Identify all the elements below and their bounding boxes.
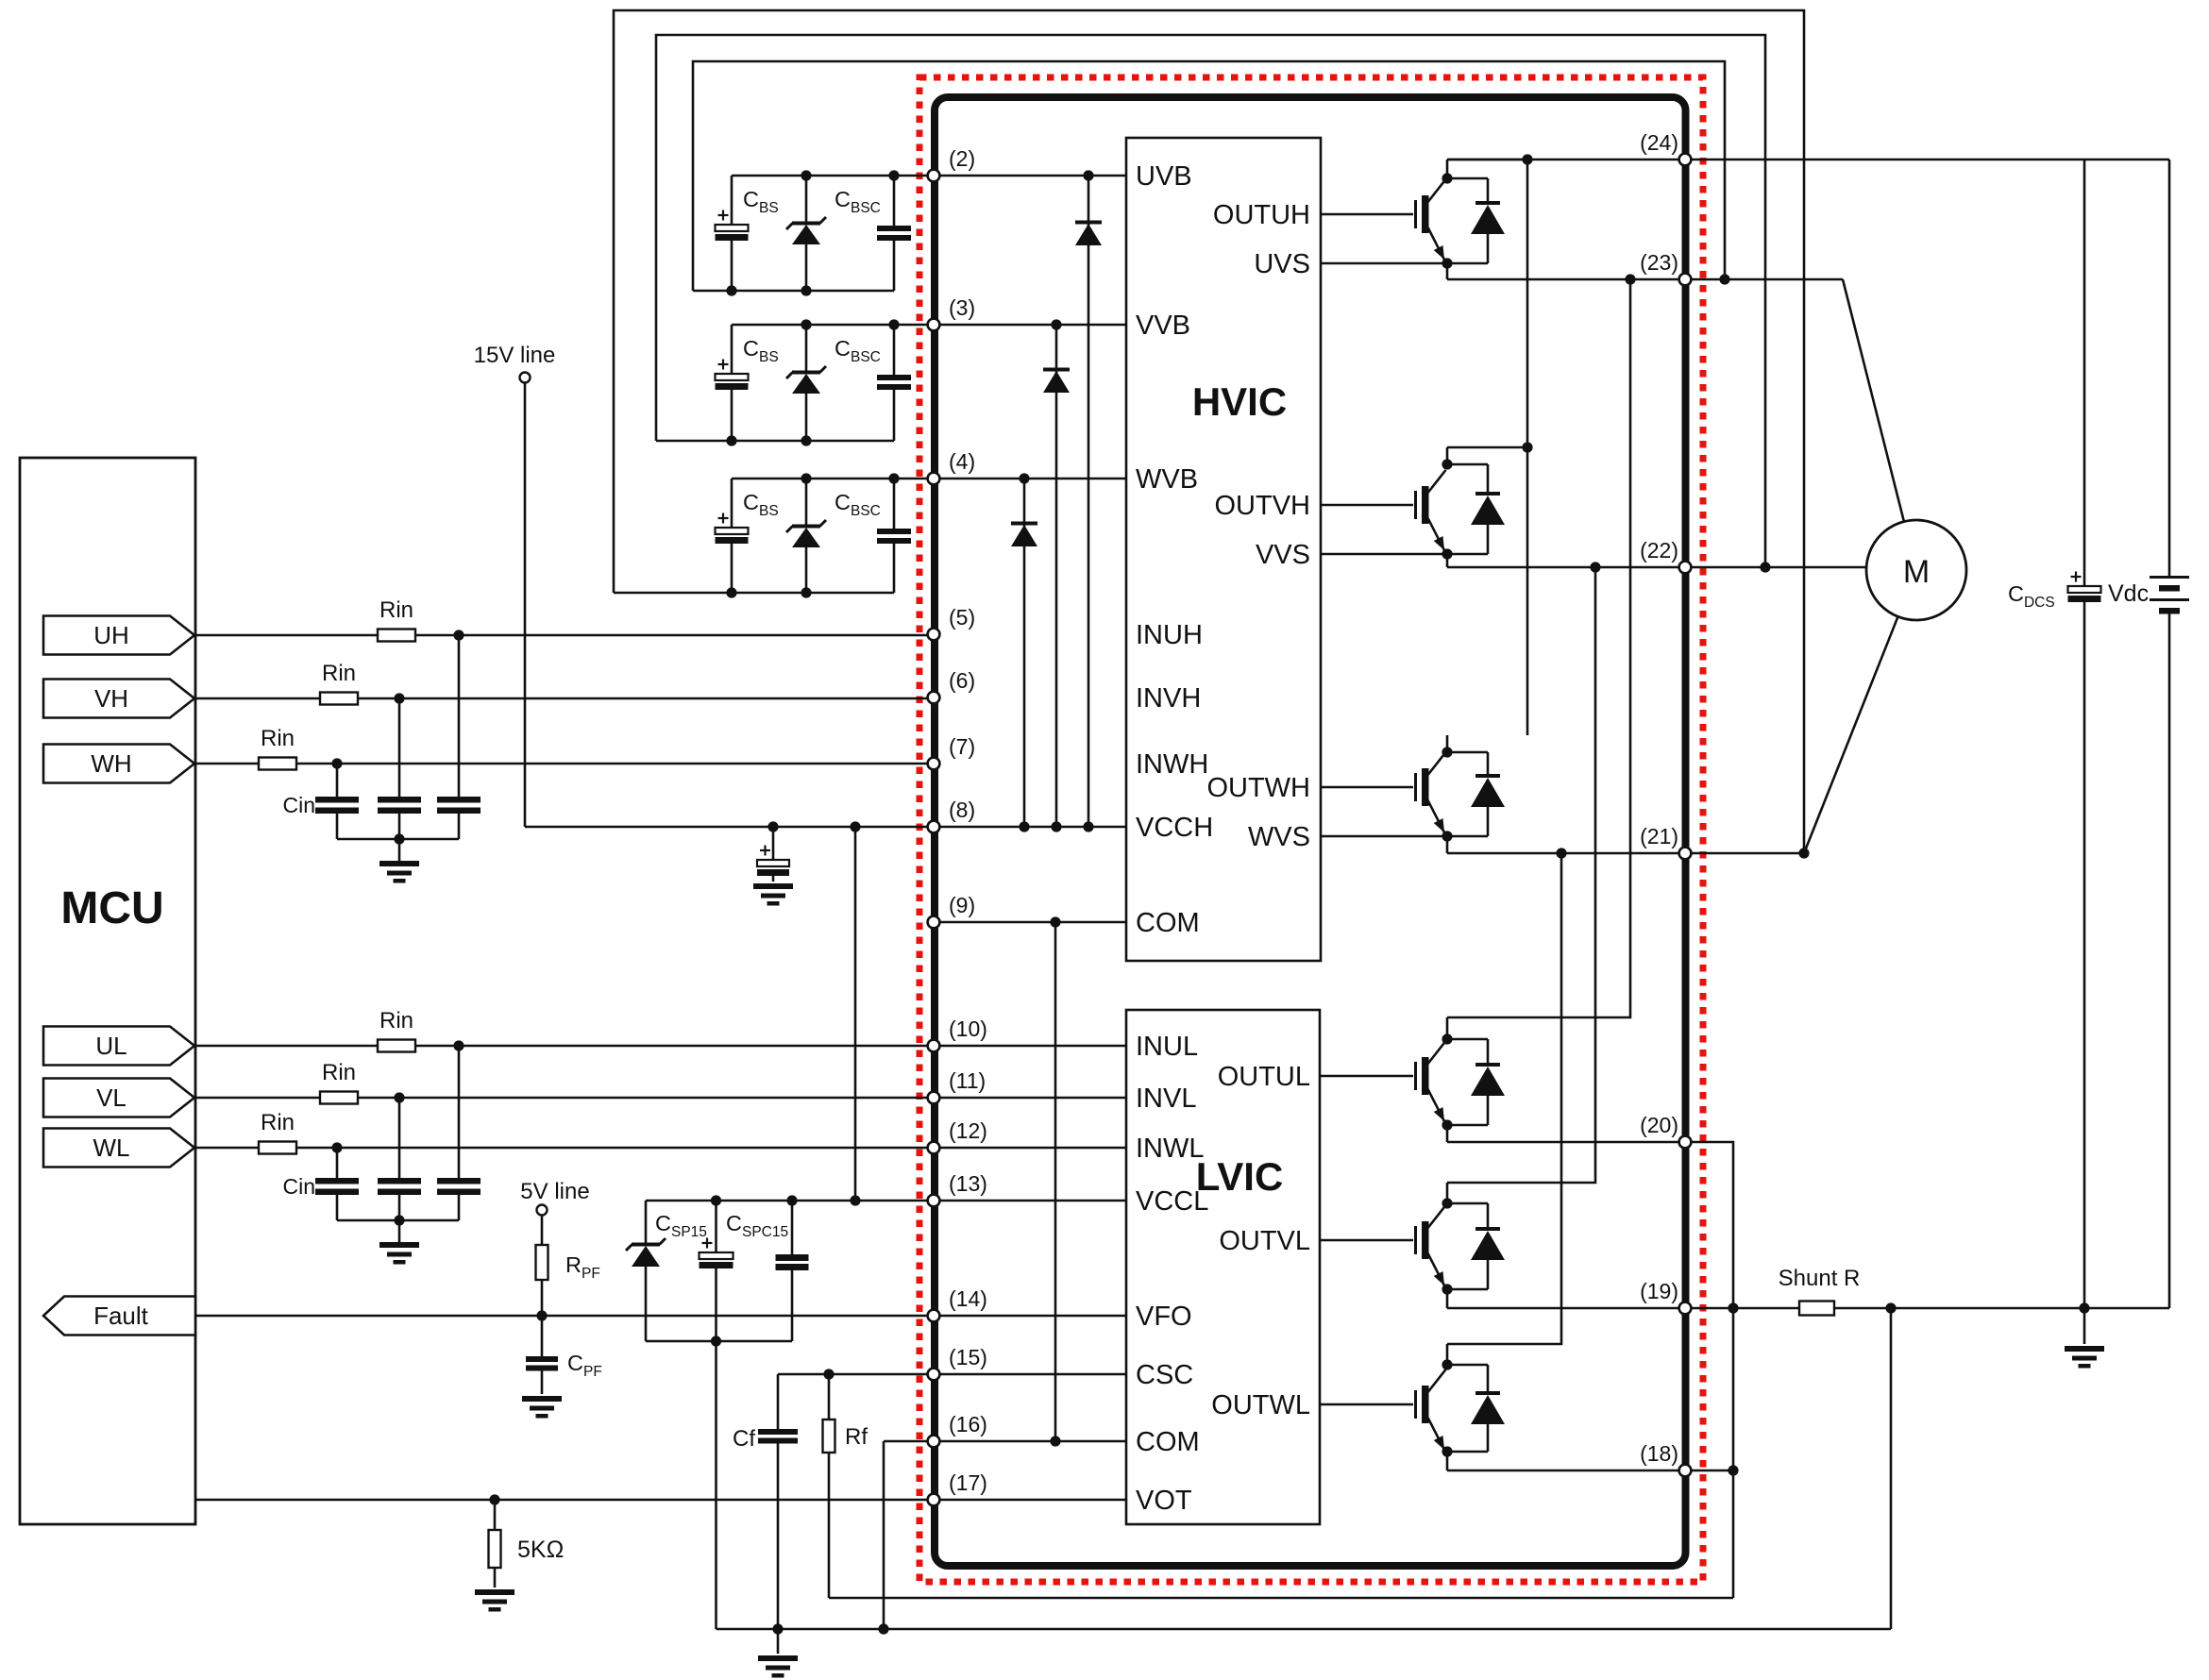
svg-text:VVB: VVB	[1136, 311, 1190, 341]
thick black module outline	[935, 97, 1686, 1566]
capacitor Cin	[315, 764, 359, 839]
svg-text:(10): (10)	[949, 1016, 987, 1041]
svg-text:(13): (13)	[949, 1171, 987, 1196]
pin (14)	[928, 1286, 987, 1321]
wire: pin 4 line WVB	[732, 473, 1126, 483]
resistor Shunt R	[1799, 1302, 1834, 1316]
svg-text:COM: COM	[1136, 908, 1200, 938]
wire: UH input line	[194, 630, 934, 640]
wire: pin 2 line UVB	[732, 170, 1126, 180]
wire: pin 17 VOT line	[195, 1494, 1126, 1504]
capacitor CBSC (U bootstrap ceramic)	[877, 170, 911, 291]
svg-text:(19): (19)	[1640, 1279, 1678, 1303]
motor M	[1866, 520, 1966, 620]
capacitor CBS (U bootstrap electrolytic)	[716, 176, 749, 291]
svg-text:UVB: UVB	[1136, 161, 1192, 192]
svg-text:Rin: Rin	[261, 726, 295, 751]
svg-text:Shunt R: Shunt R	[1779, 1266, 1861, 1291]
ground (VCCH filter)	[753, 883, 793, 889]
wire: Cin common bus	[337, 833, 459, 844]
pin (18)	[1640, 1441, 1691, 1476]
svg-text:Rin: Rin	[322, 661, 356, 686]
wire: COM to signal-ground riser	[883, 1441, 885, 1629]
input terminal arrow WH	[43, 745, 194, 783]
wire: pin 12 line INWL	[934, 1147, 1126, 1150]
MCU block	[20, 458, 195, 1524]
wire: outer route A (W-phase bootstrap return, loop3 bottom to pin 21 node)	[614, 10, 1810, 859]
wire: bootstrap loop U bottom	[693, 285, 894, 295]
wire: outer route C (U-phase bootstrap return, loop1 bottom to pin 23 node)	[693, 61, 1730, 291]
red dotted module boundary	[919, 77, 1703, 1582]
wire: pin 11 line INVL	[934, 1097, 1126, 1100]
terminal 15V line	[474, 343, 556, 383]
capacitor Cin	[437, 1046, 481, 1220]
input terminal arrow VH	[43, 680, 194, 718]
pin (9)	[928, 893, 976, 928]
wire: U-output riser to OUTUL collector	[1447, 279, 1630, 1017]
capacitor CSPC15 (15V ceramic)	[776, 1201, 809, 1341]
svg-text:VFO: VFO	[1136, 1302, 1192, 1332]
wire: 15V supply drop to VCCH	[524, 383, 527, 827]
transistor Q3 (OUTWH)	[1321, 735, 1453, 853]
svg-text:INVL: INVL	[1136, 1084, 1196, 1114]
input terminal arrow WL	[43, 1129, 194, 1168]
pin (23)	[1640, 250, 1691, 285]
resistor Rin (VL)	[320, 1092, 358, 1104]
ground (Cin bus)	[379, 839, 419, 883]
wire: pin 3 line VVB	[732, 319, 1126, 329]
svg-text:WH: WH	[91, 749, 131, 778]
svg-text:(5): (5)	[949, 605, 975, 630]
input terminal arrow VL	[43, 1079, 194, 1117]
wire: VCCH to VCCL riser	[854, 827, 857, 1201]
transistor Q6 (OUTWL)	[1321, 1344, 1453, 1470]
svg-text:UH: UH	[93, 621, 129, 649]
svg-text:WVB: WVB	[1136, 464, 1198, 495]
freewheel diode of Q4 (OUTUL)	[1447, 1039, 1505, 1125]
internal bootstrap diode (U), pin2 to VCCH	[1075, 176, 1102, 832]
freewheel diode of Q1 (OUTUH)	[1447, 178, 1505, 263]
wire: WL input line	[194, 1142, 934, 1152]
transistor Q2 (OUTVH)	[1321, 447, 1453, 567]
svg-text:(11): (11)	[949, 1068, 986, 1093]
ground (Cin bus)	[379, 1220, 419, 1265]
wire: VCCH pin 8 line	[525, 821, 1126, 832]
wire: pin 21 W-output line	[1447, 848, 1804, 858]
svg-text:Cin: Cin	[282, 793, 315, 817]
svg-text:5V line: 5V line	[520, 1179, 589, 1204]
pin (4)	[928, 449, 976, 484]
input terminal arrow UH	[43, 616, 194, 655]
wire: U phase to motor	[1843, 279, 1904, 522]
capacitor (VCCH 15V filter electrolytic)	[757, 827, 789, 882]
pin (7)	[928, 734, 976, 769]
freewheel diode of Q6 (OUTWL)	[1447, 1365, 1505, 1452]
capacitor Cin	[315, 1148, 359, 1220]
pin (17)	[928, 1470, 987, 1505]
pin (24)	[1640, 130, 1691, 165]
svg-text:(14): (14)	[949, 1286, 987, 1311]
svg-text:LVIC: LVIC	[1196, 1154, 1284, 1199]
terminal 5V line	[520, 1179, 589, 1216]
battery Vdc	[2150, 160, 2189, 1308]
resistor Rin (UH)	[378, 630, 415, 642]
svg-text:HVIC: HVIC	[1192, 379, 1287, 424]
capacitor Cin	[437, 635, 481, 839]
svg-text:(2): (2)	[949, 146, 975, 171]
capacitor CBSC (V bootstrap ceramic)	[877, 319, 911, 441]
wire: VH input line	[194, 693, 934, 703]
transistor Q5 (OUTVL)	[1321, 1183, 1453, 1308]
internal bootstrap diode (V), pin3 to VCCH	[1043, 325, 1070, 832]
svg-text:MCU: MCU	[60, 883, 163, 933]
pin (22)	[1640, 538, 1691, 573]
wire: pin 16 COM line	[884, 1440, 1126, 1443]
zener diode (V bootstrap)	[786, 319, 826, 441]
svg-text:(16): (16)	[949, 1412, 987, 1436]
pin (2)	[928, 146, 976, 181]
wire: pin 19 NV / shunt line	[1447, 1302, 2169, 1313]
wire: pin 10 line INUL	[934, 1045, 1126, 1048]
freewheel diode of Q5 (OUTVL)	[1447, 1203, 1505, 1289]
svg-text:Cf: Cf	[733, 1426, 755, 1452]
svg-text:(9): (9)	[949, 893, 975, 917]
svg-text:(24): (24)	[1640, 130, 1678, 155]
capacitor CBSC (W bootstrap ceramic)	[877, 473, 911, 593]
wire: pin 22 V-output line	[1447, 562, 1866, 572]
svg-text:Cin: Cin	[282, 1174, 315, 1199]
ground (5Kohm)	[475, 1589, 514, 1595]
svg-text:OUTVL: OUTVL	[1219, 1226, 1310, 1256]
wire: pin 9 COM line	[934, 916, 1126, 927]
svg-text:M: M	[1903, 554, 1930, 590]
pin (5)	[928, 605, 976, 640]
capacitor CSP15 (15V electrolytic)	[700, 1201, 734, 1341]
wire: V-output riser to OUTVL collector	[1447, 567, 1595, 1183]
svg-text:VCCH: VCCH	[1136, 813, 1213, 843]
svg-text:Rf: Rf	[845, 1424, 868, 1450]
wire: UVS sense line	[1321, 262, 1447, 265]
svg-text:INVH: INVH	[1136, 683, 1201, 714]
wire: bootstrap loop V bottom	[656, 435, 894, 445]
wire: signal ground bus under module	[717, 1623, 1892, 1634]
svg-text:(4): (4)	[949, 449, 975, 474]
svg-text:VVS: VVS	[1256, 540, 1310, 570]
svg-text:Rin: Rin	[379, 597, 413, 623]
svg-text:(20): (20)	[1640, 1113, 1678, 1137]
svg-text:(6): (6)	[949, 668, 975, 693]
output terminal arrow Fault	[43, 1297, 195, 1336]
ground (signal ground bus)	[758, 1629, 798, 1678]
wire: outer route B (V-phase bootstrap return, loop2 bottom to pin 22 node)	[656, 35, 1771, 573]
resistor Rf	[823, 1374, 835, 1598]
pin (13)	[928, 1171, 987, 1206]
wire: bootstrap loop W bottom	[614, 587, 894, 597]
op-amp/IC block HVIC	[1126, 138, 1321, 961]
pin (12)	[928, 1118, 987, 1153]
freewheel diode of Q3 (OUTWH)	[1447, 752, 1505, 836]
svg-text:OUTVH: OUTVH	[1215, 491, 1311, 521]
resistor Rin (WH)	[259, 758, 296, 770]
svg-text:OUTUH: OUTUH	[1213, 200, 1310, 230]
svg-text:CSC: CSC	[1136, 1360, 1193, 1390]
svg-text:VH: VH	[94, 684, 128, 713]
svg-text:OUTWH: OUTWH	[1206, 773, 1310, 803]
svg-text:(23): (23)	[1640, 250, 1678, 275]
wire: W phase to motor	[1804, 616, 1898, 853]
svg-text:VOT: VOT	[1136, 1486, 1192, 1516]
svg-text:(17): (17)	[949, 1470, 987, 1495]
wire: SP15 group bottom bus	[646, 1336, 792, 1346]
svg-text:(12): (12)	[949, 1118, 987, 1143]
capacitor Cin	[378, 698, 421, 839]
pin (16)	[928, 1412, 987, 1447]
pin (3)	[928, 295, 976, 330]
svg-text:UVS: UVS	[1254, 249, 1310, 279]
wire: Q2 collector top wire	[1447, 446, 1528, 449]
wire: Q1 collector top wire	[1447, 159, 1527, 161]
wire: WVS sense line	[1321, 835, 1447, 838]
svg-text:Fault: Fault	[93, 1302, 149, 1330]
svg-text:OUTWL: OUTWL	[1211, 1390, 1310, 1420]
svg-text:(15): (15)	[949, 1345, 987, 1369]
svg-text:COM: COM	[1136, 1427, 1200, 1457]
pin (6)	[928, 668, 976, 703]
svg-text:VCCL: VCCL	[1136, 1186, 1208, 1217]
pin (19)	[1640, 1279, 1691, 1314]
wire: W-output riser to OUTWL collector	[1447, 853, 1561, 1344]
wire: Cin common bus	[337, 1215, 459, 1225]
resistor Rin (UL)	[378, 1040, 415, 1052]
wire: VL input line	[194, 1092, 934, 1102]
svg-text:UL: UL	[95, 1032, 126, 1060]
pin (11)	[928, 1068, 986, 1103]
svg-text:(21): (21)	[1640, 824, 1678, 848]
ground (power ground at shunt)	[2065, 1308, 2104, 1369]
wire: pin 24 P-bus line	[1447, 154, 2169, 164]
zener diode (W bootstrap)	[786, 473, 826, 593]
wire: pin 15 CSC line	[778, 1369, 1126, 1379]
capacitor CDCS (DC link)	[2068, 160, 2101, 1308]
wire: SP15 bottom to signal-ground bus riser	[715, 1341, 717, 1629]
pin (21)	[1640, 824, 1691, 859]
svg-text:OUTUL: OUTUL	[1218, 1062, 1310, 1092]
resistor Rin (VH)	[320, 693, 358, 705]
wire: pin 13 VCCL line	[646, 1195, 1126, 1205]
svg-text:(7): (7)	[949, 734, 975, 759]
capacitor CPF	[526, 1316, 558, 1394]
pin (20)	[1640, 1113, 1691, 1148]
capacitor CBS (W bootstrap electrolytic)	[716, 479, 749, 593]
svg-text:Rin: Rin	[379, 1008, 413, 1033]
svg-text:(8): (8)	[949, 798, 975, 822]
capacitor CBS (V bootstrap electrolytic)	[716, 325, 749, 441]
capacitor Cin	[378, 1098, 421, 1220]
svg-text:(22): (22)	[1640, 538, 1678, 563]
wire: pin 14 Fault/VFO line	[195, 1310, 1126, 1320]
wire: WH input line	[194, 758, 934, 768]
internal bootstrap diode (W), pin4 to VCCH	[1011, 479, 1037, 832]
transistor Q1 (OUTUH)	[1321, 160, 1453, 279]
svg-text:(3): (3)	[949, 295, 975, 320]
input terminal arrow UL	[43, 1027, 194, 1066]
freewheel diode of Q2 (OUTVH)	[1447, 464, 1505, 554]
transistor Q4 (OUTUL)	[1321, 1017, 1453, 1142]
wire: P riser to lower high-side collectors	[1522, 160, 1532, 735]
pin (8)	[928, 798, 976, 832]
wire: pin 23 U-output line	[1447, 274, 1843, 284]
resistor 5Kohm	[489, 1500, 501, 1588]
svg-text:INWH: INWH	[1136, 749, 1208, 780]
svg-text:Rin: Rin	[322, 1060, 356, 1085]
wire: HVIC COM to LVIC COM riser	[1050, 922, 1060, 1447]
capacitor Cf	[758, 1374, 798, 1629]
svg-text:INUH: INUH	[1136, 620, 1203, 650]
svg-text:INWL: INWL	[1136, 1134, 1205, 1164]
wire: VVS sense line	[1321, 553, 1447, 556]
zener diode (15V clamp)	[626, 1201, 666, 1341]
svg-text:15V line: 15V line	[474, 343, 556, 368]
wire: UL input line	[194, 1040, 934, 1050]
svg-text:INUL: INUL	[1136, 1032, 1198, 1062]
resistor Rin (WL)	[259, 1142, 296, 1154]
wire: pin 18 NW line	[1447, 1470, 1733, 1472]
ground (CPF)	[522, 1396, 562, 1402]
svg-text:VL: VL	[96, 1084, 126, 1112]
pin (15)	[928, 1345, 987, 1380]
svg-text:WVS: WVS	[1248, 822, 1310, 852]
op-amp/IC block LVIC	[1126, 1010, 1320, 1524]
wire: Rf to N-bus link	[829, 1597, 1733, 1600]
resistor RPF	[536, 1216, 548, 1316]
svg-text:5KΩ: 5KΩ	[517, 1537, 564, 1563]
zener diode (U bootstrap)	[786, 170, 826, 291]
svg-text:Vdc: Vdc	[2108, 580, 2149, 607]
svg-text:Rin: Rin	[261, 1110, 295, 1135]
wire: shunt low side to signal ground bus	[1890, 1308, 1893, 1629]
svg-text:(18): (18)	[1640, 1441, 1678, 1466]
pin (10)	[928, 1016, 987, 1051]
svg-text:WL: WL	[93, 1134, 130, 1162]
wire: pin 20 NU line	[1447, 1142, 1739, 1598]
